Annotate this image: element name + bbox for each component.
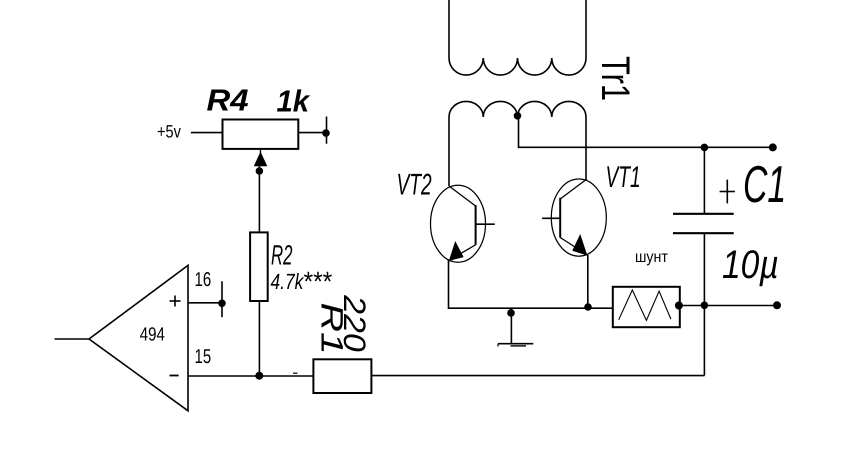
svg-text:***: *** xyxy=(303,266,333,297)
svg-text:494: 494 xyxy=(140,325,165,346)
svg-text:R1: R1 xyxy=(315,303,350,355)
svg-text:16: 16 xyxy=(195,269,212,291)
svg-text:R2: R2 xyxy=(271,239,293,270)
svg-text:C1: C1 xyxy=(743,156,786,214)
svg-text:+5v: +5v xyxy=(157,122,181,142)
svg-text:VT2: VT2 xyxy=(397,169,432,202)
svg-text:1k: 1k xyxy=(277,85,312,119)
svg-text:4.7k: 4.7k xyxy=(271,269,305,294)
svg-text:15: 15 xyxy=(195,346,212,368)
svg-text:шунт: шунт xyxy=(635,249,669,266)
svg-text:VT1: VT1 xyxy=(606,161,641,194)
svg-text:10µ: 10µ xyxy=(722,243,779,287)
svg-text:R4: R4 xyxy=(207,84,249,118)
svg-text:Tr1: Tr1 xyxy=(593,56,637,101)
